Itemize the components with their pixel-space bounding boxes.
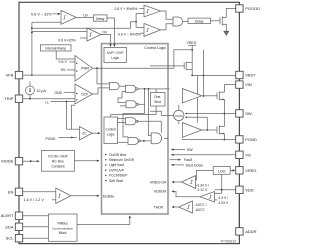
- svg-text:140°C /: 140°C /: [195, 203, 206, 207]
- svg-text:SW: SW: [245, 111, 252, 116]
- svg-text:Constant: Constant: [51, 165, 64, 169]
- svg-text:MODE: MODE: [1, 159, 13, 164]
- svg-text:ADDR: ADDR: [245, 229, 256, 234]
- svg-text:Enable: Enable: [103, 194, 114, 198]
- svg-text:PGND: PGND: [245, 137, 257, 142]
- svg-text:RC time: RC time: [52, 160, 64, 164]
- svg-text:On/Off time: On/Off time: [109, 153, 126, 157]
- svg-text:PMBus: PMBus: [58, 222, 69, 226]
- svg-text:ALERT: ALERT: [1, 213, 14, 218]
- svg-text:TRIP: TRIP: [4, 96, 13, 101]
- svg-text:VIN: VIN: [245, 82, 252, 87]
- svg-text:ZC: ZC: [82, 131, 87, 135]
- svg-text:Light load: Light load: [109, 163, 124, 167]
- svg-text:Soft Start: Soft Start: [109, 179, 123, 183]
- svg-text:3.12 V: 3.12 V: [197, 188, 208, 192]
- svg-text:VREG-OK: VREG-OK: [150, 180, 167, 184]
- svg-text:10 µA: 10 µA: [36, 89, 46, 93]
- svg-text:VREG: VREG: [187, 41, 197, 45]
- svg-text:VDD: VDD: [245, 187, 254, 192]
- svg-text:Logic: Logic: [111, 56, 119, 60]
- svg-text:GND: GND: [55, 91, 63, 95]
- svg-text:TPS53915: TPS53915: [220, 240, 236, 244]
- svg-text:Shot: Shot: [154, 100, 161, 104]
- svg-text:Communication: Communication: [52, 226, 73, 230]
- svg-text:THOK: THOK: [154, 205, 165, 209]
- svg-text:VREG: VREG: [245, 168, 256, 173]
- svg-text:Fault: Fault: [184, 158, 192, 162]
- svg-text:Shut Down: Shut Down: [186, 163, 204, 167]
- svg-text:SW: SW: [187, 148, 193, 152]
- svg-text:3.34 V /: 3.34 V /: [197, 183, 209, 187]
- svg-text:160°C: 160°C: [195, 208, 205, 212]
- svg-text:FCCM / SKIP: FCCM / SKIP: [48, 155, 69, 159]
- svg-text:One-: One-: [154, 95, 161, 99]
- svg-text:0.6 V+20%: 0.6 V+20%: [58, 39, 76, 43]
- svg-text:OCP: OCP: [81, 92, 88, 96]
- svg-text:VDDOK: VDDOK: [154, 190, 167, 194]
- svg-text:1.6 V / 1.2 V: 1.6 V / 1.2 V: [24, 198, 45, 202]
- svg-text:4.3 V /: 4.3 V /: [218, 196, 228, 200]
- svg-text:PGND: PGND: [46, 137, 56, 141]
- svg-text:UVP / OVP: UVP / OVP: [107, 51, 124, 55]
- svg-text:Control: Control: [106, 127, 117, 131]
- svg-text:0.6 V + 8%/5%: 0.6 V + 8%/5%: [115, 7, 138, 11]
- svg-text:VBST: VBST: [245, 73, 256, 78]
- svg-text:UV: UV: [83, 13, 88, 17]
- svg-text:OV: OV: [102, 31, 108, 35]
- svg-text:4.03 V: 4.03 V: [218, 201, 229, 205]
- svg-text:Minimum On/Off: Minimum On/Off: [109, 158, 134, 162]
- svg-text:SS: SS: [61, 68, 66, 72]
- svg-text:Delay: Delay: [195, 19, 204, 23]
- svg-text:0.6 V – 32%: 0.6 V – 32%: [31, 12, 52, 16]
- svg-text:Delay: Delay: [96, 17, 105, 21]
- svg-text:Logic: Logic: [107, 132, 115, 136]
- svg-text:EN: EN: [8, 189, 14, 194]
- svg-text:PGOOD: PGOOD: [245, 6, 260, 11]
- svg-text:XCON: XCON: [175, 114, 183, 118]
- svg-text:Internal Ramp: Internal Ramp: [45, 46, 66, 50]
- svg-text:Control Logic: Control Logic: [144, 46, 166, 50]
- svg-text:0.6 V – 8%/5%: 0.6 V – 8%/5%: [118, 32, 141, 36]
- svg-text:VO: VO: [245, 152, 251, 157]
- svg-text:PWM: PWM: [81, 66, 89, 70]
- svg-text:LL: LL: [45, 100, 49, 104]
- svg-text:LDO: LDO: [218, 169, 226, 173]
- svg-text:OVP/UVP: OVP/UVP: [109, 168, 125, 172]
- svg-text:VFB: VFB: [6, 73, 14, 78]
- svg-text:FCCM/SKIP: FCCM/SKIP: [109, 174, 128, 178]
- svg-text:SDA: SDA: [5, 224, 14, 229]
- svg-text:0.6 V: 0.6 V: [59, 60, 68, 64]
- svg-text:Block: Block: [59, 231, 67, 235]
- svg-text:SCL: SCL: [6, 236, 15, 241]
